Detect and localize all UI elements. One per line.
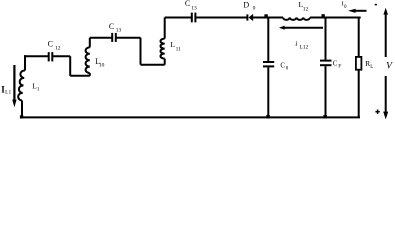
svg-text:F: F — [338, 64, 341, 70]
svg-text:13: 13 — [116, 28, 122, 34]
svg-text:10: 10 — [99, 63, 105, 69]
svg-text:13: 13 — [191, 6, 197, 12]
svg-text:12: 12 — [303, 6, 309, 12]
svg-text:0: 0 — [253, 5, 256, 11]
svg-text:L: L — [370, 65, 373, 70]
svg-text:L1: L1 — [5, 90, 11, 96]
svg-text:11: 11 — [176, 47, 182, 53]
svg-text:C: C — [48, 39, 53, 48]
svg-text:L12: L12 — [299, 45, 308, 51]
svg-text:D: D — [243, 1, 249, 10]
svg-text:V: V — [386, 62, 393, 72]
svg-text:C: C — [109, 22, 114, 31]
svg-text:C: C — [333, 60, 338, 68]
svg-text:0: 0 — [344, 5, 347, 10]
svg-text:C: C — [185, 0, 190, 8]
svg-text:12: 12 — [55, 46, 61, 52]
svg-text:0: 0 — [286, 67, 289, 72]
svg-text:1: 1 — [37, 88, 40, 93]
svg-text:i: i — [295, 39, 297, 48]
svg-text:C: C — [280, 61, 285, 69]
